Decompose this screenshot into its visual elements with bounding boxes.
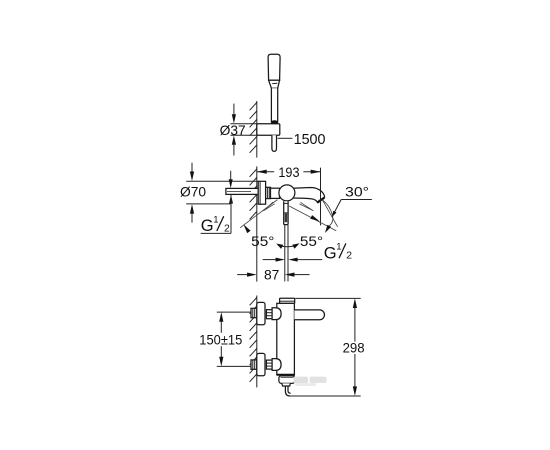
svg-text:G: G — [324, 244, 337, 262]
1500 leader line — [278, 137, 293, 139]
body tube side — [271, 188, 280, 198]
spout swing line 30 — [323, 200, 338, 227]
150 extension line top — [217, 311, 251, 313]
bottom union nut — [266, 360, 272, 369]
wall hatch top section — [250, 101, 257, 158]
D37 extension line bottom — [230, 134, 256, 136]
faucet front view — [251, 298, 324, 396]
bottom escutcheon — [257, 353, 265, 375]
G1/2 outlet pointer arrows — [263, 259, 276, 261]
wall hatch bottom section — [250, 296, 257, 388]
swing line 55 left — [240, 200, 337, 234]
shower hose stub — [272, 135, 277, 151]
spout swing arc — [322, 200, 332, 226]
arc arrowhead right B — [325, 225, 331, 233]
label 55deg left — [251, 234, 323, 249]
svg-text:1: 1 — [336, 241, 341, 252]
svg-text:30°: 30° — [345, 184, 369, 199]
D70 dimension arrows — [191, 163, 193, 172]
svg-text:87: 87 — [264, 267, 279, 282]
svg-text:55°: 55° — [251, 234, 274, 249]
D70 extension line top — [186, 180, 258, 182]
faucet escutcheon side — [258, 181, 324, 281]
G1/2 left leader underline — [201, 232, 231, 234]
spout — [293, 188, 325, 203]
top ball joint — [272, 308, 281, 320]
D37 extension line top — [230, 123, 256, 125]
label 1500 — [278, 131, 326, 148]
30deg leader — [341, 199, 372, 201]
298 extension line bottom — [288, 395, 361, 397]
outlet tube — [285, 386, 290, 396]
D37 dimension line with arrows — [233, 104, 235, 115]
top union nut — [266, 310, 272, 319]
G half left label — [201, 171, 233, 235]
svg-text:2: 2 — [224, 223, 230, 234]
hose nipple — [282, 383, 291, 386]
G1/2 left thread arrows — [230, 171, 232, 180]
298 extension line top — [295, 297, 360, 299]
arc arrowhead left — [243, 224, 250, 233]
svg-text:1: 1 — [213, 214, 218, 225]
298 dimension line with arrows — [353, 298, 357, 308]
swing line 55 right — [289, 206, 336, 231]
svg-text:298: 298 — [343, 340, 365, 355]
dimension D70 — [180, 163, 258, 223]
87 dimension arrows — [237, 274, 247, 276]
hand shower head — [257, 54, 280, 151]
top wall stub — [251, 308, 257, 317]
svg-text:193: 193 — [278, 165, 299, 180]
union nut side — [266, 187, 271, 198]
outlet stub lines — [284, 225, 286, 282]
hand shower taper — [269, 80, 280, 88]
svg-text:2: 2 — [346, 251, 352, 262]
tilted lever outline left — [263, 202, 275, 211]
bottom cap block — [279, 376, 295, 384]
svg-text:1500: 1500 — [294, 131, 326, 148]
wall hatch middle section — [250, 166, 257, 281]
dimension D37 — [220, 104, 257, 156]
faucet body front — [277, 303, 295, 375]
G half pipe shank — [226, 188, 258, 194]
wall holder bracket — [257, 124, 280, 135]
dimension 298 — [288, 298, 365, 396]
150 extension line bottom — [217, 365, 251, 367]
193 dimension line — [257, 171, 274, 173]
tilted lever outline right — [300, 202, 314, 211]
top escutcheon — [257, 302, 265, 324]
top cap — [280, 298, 295, 303]
dimension 150pm15 — [199, 312, 251, 366]
G half right label — [263, 241, 353, 262]
svg-text:Ø37: Ø37 — [220, 123, 246, 138]
svg-text:150±15: 150±15 — [199, 332, 242, 347]
lever handle — [284, 201, 288, 224]
svg-text:Ø70: Ø70 — [180, 184, 206, 199]
hand shower seal — [271, 120, 278, 124]
dimension 193 — [257, 165, 321, 225]
spout front — [294, 310, 324, 320]
dimension 87 — [237, 267, 309, 282]
193 extension line right — [320, 168, 322, 226]
lever swing double arrow — [278, 245, 298, 247]
cartridge housing — [279, 185, 295, 201]
150 dimension line with arrows — [219, 312, 223, 322]
hand shower handle — [271, 88, 277, 121]
bottom wall stub — [251, 360, 257, 369]
arc arrowhead right A — [310, 215, 319, 221]
bottom ball joint — [272, 359, 281, 371]
body bottom edge — [277, 374, 295, 376]
svg-text:G: G — [201, 217, 214, 235]
watermark — [294, 377, 327, 386]
label 30deg — [332, 184, 372, 217]
D70 extension line bottom — [186, 203, 231, 205]
svg-text:55°: 55° — [300, 234, 323, 249]
